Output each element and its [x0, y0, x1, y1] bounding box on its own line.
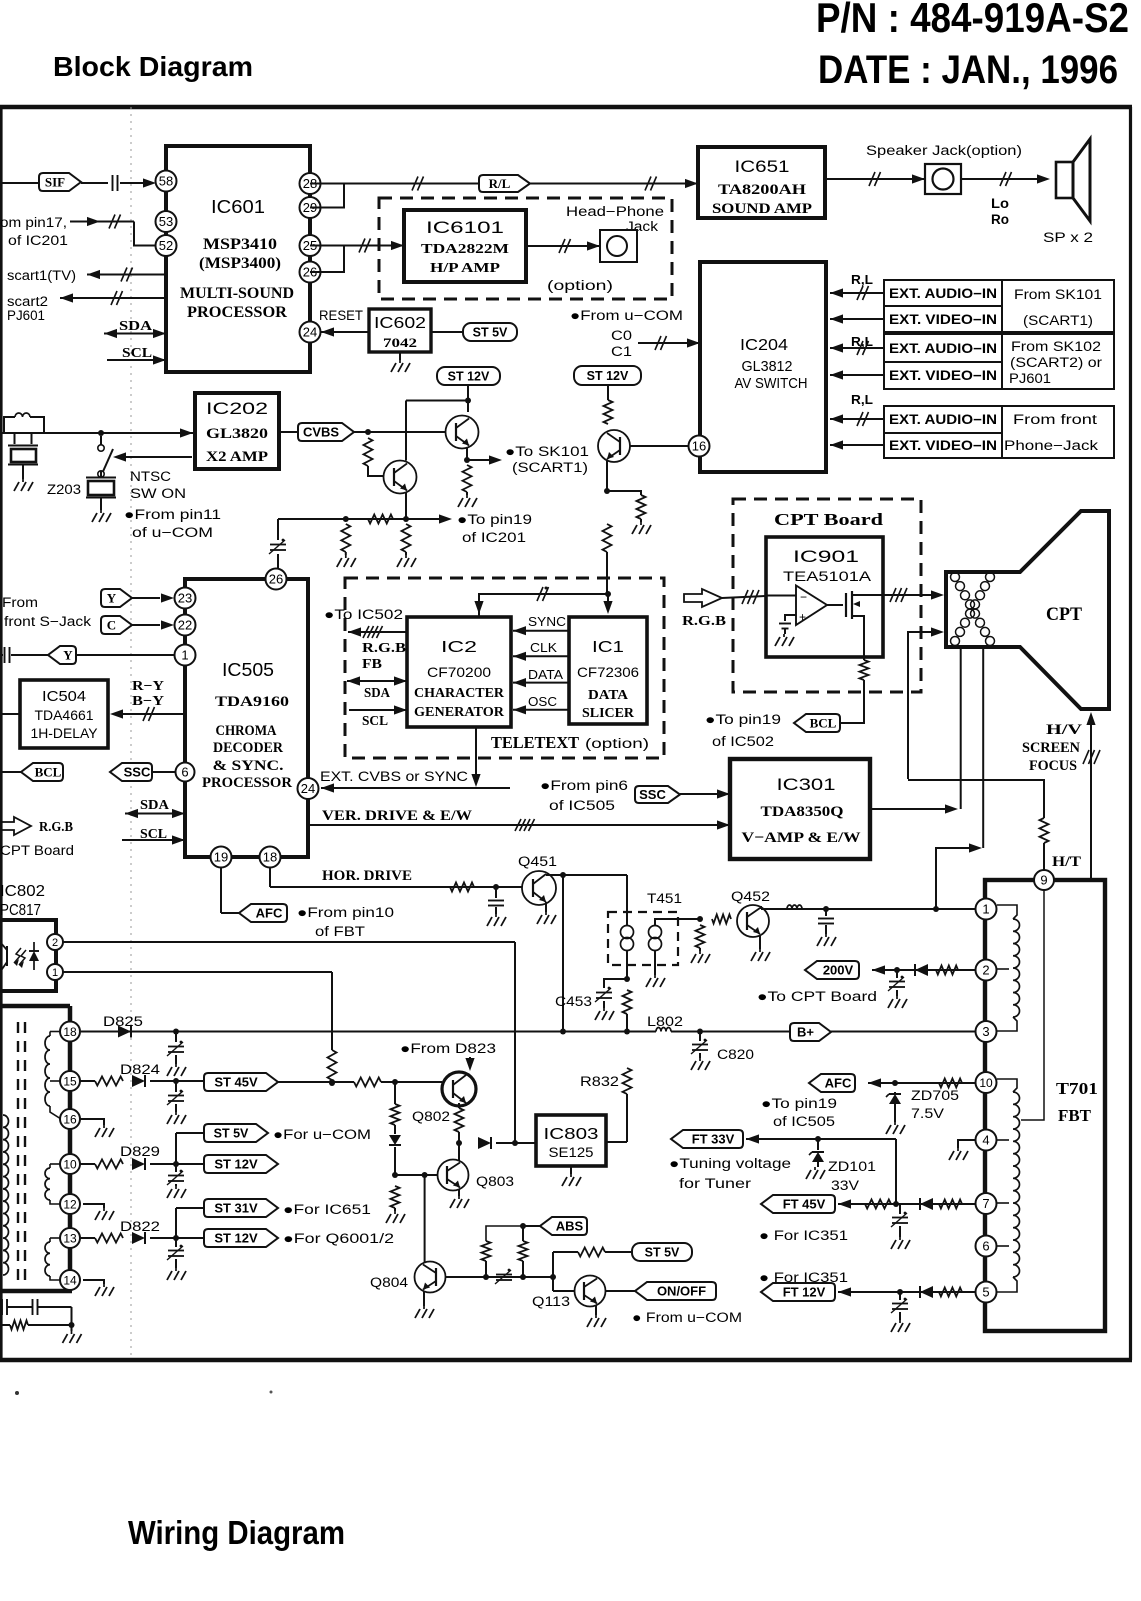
transistor below ST12V	[598, 430, 630, 462]
pin 29	[300, 197, 321, 218]
svg-text:ST 45V: ST 45V	[214, 1075, 258, 1090]
svg-text:CF70200: CF70200	[427, 664, 491, 680]
dashed option box IC6101	[379, 198, 672, 299]
wire jack to speaker	[961, 178, 1039, 180]
svg-text:TDA2822M: TDA2822M	[421, 242, 509, 257]
svg-text:of IC201: of IC201	[462, 530, 526, 545]
opto pin1 wire	[63, 971, 332, 973]
svg-text:BCL: BCL	[35, 765, 62, 780]
pin 6	[176, 763, 195, 782]
svg-text:ST 12V: ST 12V	[448, 370, 490, 384]
svg-text:EXT. CVBS or SYNC: EXT. CVBS or SYNC	[320, 768, 468, 784]
frame border	[0, 105, 1132, 110]
svg-text:●From pin10: ●From pin10	[297, 905, 394, 920]
base resistor/gnd for Q452	[696, 925, 705, 948]
T451 secondary coil	[649, 926, 662, 939]
svg-text:ST 31V: ST 31V	[214, 1201, 258, 1216]
T801 primary winding (cut at frame)	[3, 1115, 9, 1275]
svg-text:IC504: IC504	[42, 688, 86, 705]
resistor below zener to ground	[391, 1186, 400, 1208]
ABS resistors	[482, 1241, 491, 1261]
transistor Q802 (bold)	[442, 1072, 476, 1106]
tag SIF	[39, 173, 81, 191]
svg-text:V−AMP & E/W: V−AMP & E/W	[742, 830, 861, 846]
tag ST 5V	[463, 323, 517, 341]
svg-text:●From pin6: ●From pin6	[540, 778, 628, 793]
Q113 to ON/OFF	[606, 1290, 635, 1292]
svg-text:16: 16	[692, 439, 706, 454]
svg-text:DECODER: DECODER	[213, 740, 283, 756]
svg-text:(SCART1): (SCART1)	[512, 460, 588, 475]
svg-text:Q802: Q802	[412, 1109, 450, 1124]
pin 24	[300, 322, 321, 343]
svg-text:SDA: SDA	[364, 686, 391, 701]
svg-text:GENERATOR: GENERATOR	[414, 704, 504, 719]
svg-text:FOCUS: FOCUS	[1029, 758, 1077, 774]
svg-text:Speaker Jack(option): Speaker Jack(option)	[866, 143, 1022, 158]
ST 5V near Q113	[552, 1252, 554, 1277]
yoke drop V	[960, 647, 962, 809]
svg-text:12: 12	[63, 1197, 77, 1211]
svg-text:TELETEXT: TELETEXT	[491, 733, 579, 752]
pin 2	[976, 960, 997, 981]
svg-text:FT 33V: FT 33V	[692, 1132, 735, 1147]
svg-text:CHROMA: CHROMA	[216, 723, 277, 739]
svg-text:SDA: SDA	[140, 798, 170, 813]
svg-text:IC301: IC301	[777, 775, 836, 794]
Q803 emitter ground	[458, 1189, 460, 1196]
IC504 box	[20, 680, 108, 748]
transistor emitter down / branch	[606, 461, 608, 491]
pin 6	[976, 1236, 997, 1257]
svg-text:ZD101: ZD101	[828, 1159, 876, 1174]
svg-text:H/P AMP: H/P AMP	[430, 261, 501, 276]
wire R/L to IC651	[530, 183, 698, 185]
Q113 emitter ground	[595, 1305, 597, 1315]
svg-text:ST 5V: ST 5V	[645, 1246, 680, 1260]
svg-text:24: 24	[303, 325, 317, 340]
svg-text:H/T: H/T	[1052, 854, 1081, 870]
svg-text:SP x 2: SP x 2	[1043, 229, 1093, 245]
svg-text:front S−Jack: front S−Jack	[4, 614, 91, 629]
H yoke feed from collector line	[936, 848, 971, 909]
svg-text:IC802: IC802	[0, 883, 45, 900]
svg-text:●For u−COM: ●For u−COM	[273, 1127, 371, 1142]
pin16 ground	[80, 1119, 104, 1125]
svg-text:Y: Y	[63, 648, 73, 663]
svg-text:SIF: SIF	[45, 175, 65, 190]
capacitor on SIF line	[81, 182, 108, 184]
svg-text:6: 6	[982, 1239, 989, 1254]
svg-text:D822: D822	[120, 1219, 160, 1234]
pin 10	[976, 1072, 997, 1093]
H/T feed arrow into yoke	[908, 632, 933, 779]
svg-text:NTSC: NTSC	[130, 469, 171, 484]
IC901 box	[766, 537, 883, 657]
svg-text:T451: T451	[647, 891, 682, 906]
pin12 ground	[83, 1204, 104, 1208]
Q804 emitter ground	[423, 1291, 425, 1306]
svg-text:FB: FB	[362, 657, 382, 672]
wire pin29 joins pin28 line	[310, 184, 344, 208]
T801 core dashes	[17, 1022, 19, 1286]
svg-text:5: 5	[982, 1285, 989, 1300]
T801 chassis thick lines	[0, 1004, 70, 1009]
svg-text:Z203: Z203	[47, 482, 81, 497]
svg-text:Jack: Jack	[626, 219, 658, 234]
Q803 base wire	[395, 1174, 438, 1176]
IC901 output to CPT	[883, 594, 933, 596]
svg-text:DATA: DATA	[588, 687, 628, 702]
tag SSC to pin6	[110, 763, 152, 781]
svg-text:L802: L802	[647, 1014, 683, 1029]
svg-text:58: 58	[159, 174, 173, 189]
svg-text:CPT Board: CPT Board	[0, 843, 74, 858]
svg-text:26: 26	[269, 572, 283, 587]
pin 13	[60, 1228, 80, 1248]
wire IC6101 to headphone jack	[526, 245, 600, 247]
Q804 collector feed	[424, 1175, 426, 1263]
svg-text:(SCART1): (SCART1)	[1023, 313, 1093, 328]
svg-text:1: 1	[982, 902, 989, 917]
svg-text:EXT. VIDEO−IN: EXT. VIDEO−IN	[889, 438, 997, 453]
optocoupler innards	[29, 951, 39, 961]
svg-text:22: 22	[178, 618, 192, 633]
AFC tag under pin 19	[220, 868, 222, 913]
svg-text:C453: C453	[555, 994, 592, 1009]
IC803 ground	[570, 1166, 572, 1174]
svg-text:DATA: DATA	[528, 667, 563, 682]
pin 19 bottom	[211, 847, 232, 868]
svg-text:From: From	[2, 595, 38, 610]
svg-text:(option): (option)	[547, 278, 613, 293]
svg-text:R/L: R/L	[489, 176, 511, 191]
svg-text:R,L: R,L	[851, 272, 873, 287]
svg-text:SSC: SSC	[124, 765, 151, 780]
R.G.B FB arrow out of IC2	[348, 631, 407, 633]
Q451 collector to B+ rail	[547, 874, 627, 875]
tag SSC into IC301	[635, 786, 680, 803]
dashed TELETEXT box	[345, 578, 664, 758]
tag R/L	[479, 175, 530, 192]
svg-text:●To CPT Board: ●To CPT Board	[757, 989, 877, 1004]
top feed wire into IC2 and IC1	[479, 594, 608, 617]
svg-text:R,L: R,L	[851, 392, 873, 407]
svg-text:scart2: scart2	[7, 294, 48, 309]
svg-text:SE125: SE125	[549, 1145, 594, 1160]
svg-text:H/V: H/V	[1046, 722, 1083, 738]
svg-text:om pin17,: om pin17,	[0, 215, 67, 230]
svg-text:●Tuning voltage: ●Tuning voltage	[669, 1156, 791, 1171]
svg-text:ZD705: ZD705	[911, 1088, 959, 1103]
svg-text:1: 1	[52, 967, 58, 979]
svg-text:SYNC: SYNC	[528, 614, 566, 629]
tag BCL left	[0, 771, 21, 773]
CVBS line to transistors	[354, 431, 446, 433]
svg-text:Wiring Diagram: Wiring Diagram	[128, 1514, 345, 1551]
IC2 box	[407, 617, 511, 727]
opto pin2 wire	[63, 941, 515, 943]
supply wire to collectors	[467, 385, 469, 412]
svg-text:R.G.B: R.G.B	[362, 641, 406, 656]
pin 10	[60, 1154, 80, 1174]
wire from pin17 to pins 53/52	[70, 221, 134, 223]
pin 23	[175, 588, 196, 609]
Q452 emitter ground	[759, 935, 761, 949]
svg-text:PC817: PC817	[0, 902, 41, 919]
svg-text:● For IC351: ● For IC351	[759, 1228, 848, 1243]
svg-text:of IC502: of IC502	[712, 734, 774, 749]
wire IC202 to CVBS	[279, 431, 298, 433]
diode to IC803	[478, 1137, 491, 1149]
svg-text:●For Q6001/2: ●For Q6001/2	[283, 1231, 394, 1246]
svg-text:VER. DRIVE & E/W: VER. DRIVE & E/W	[322, 808, 473, 824]
svg-text:EXT. AUDIO−IN: EXT. AUDIO−IN	[889, 412, 997, 427]
IC1 box	[569, 617, 647, 724]
wire SIF input	[0, 182, 39, 184]
svg-text:10: 10	[979, 1076, 993, 1090]
svg-text:HOR. DRIVE: HOR. DRIVE	[322, 868, 412, 884]
svg-text:for Tuner: for Tuner	[679, 1176, 752, 1191]
svg-text:7042: 7042	[383, 335, 417, 350]
pin 18 bottom	[260, 847, 281, 868]
svg-text:MULTI-SOUND: MULTI-SOUND	[180, 285, 294, 302]
svg-text:Q804: Q804	[370, 1275, 409, 1290]
svg-text:IC202: IC202	[206, 400, 268, 418]
C453 branch	[604, 979, 627, 988]
svg-text:Block Diagram: Block Diagram	[53, 51, 253, 82]
T801 secondary winding lower	[50, 1163, 62, 1165]
NTSC switch	[98, 430, 104, 436]
wire base to pin 16	[630, 445, 688, 447]
svg-text:ST 5V: ST 5V	[473, 326, 508, 340]
svg-text:Q451: Q451	[518, 854, 557, 869]
svg-text:R−Y: R−Y	[132, 679, 164, 694]
svg-text:●To pin19: ●To pin19	[457, 512, 532, 527]
tag Y (S-jack)	[101, 589, 132, 607]
IC301 output to yoke	[870, 808, 947, 810]
IC602 box	[369, 309, 431, 352]
svg-text:R.G.B: R.G.B	[682, 614, 726, 629]
svg-text:7.5V: 7.5V	[911, 1106, 944, 1121]
speaker jack box	[925, 164, 961, 194]
AFC row from pin 10	[809, 1074, 855, 1092]
pin 4	[976, 1130, 997, 1151]
dashed CPT Board box	[733, 499, 921, 692]
svg-text:18: 18	[263, 850, 277, 865]
svg-text:14: 14	[63, 1273, 77, 1287]
svg-text:D824: D824	[120, 1062, 161, 1077]
svg-text:EXT. VIDEO−IN: EXT. VIDEO−IN	[889, 368, 997, 383]
ST45V drop: zener to ground	[394, 1082, 396, 1104]
tag ST 12V (second)	[574, 366, 641, 385]
pin 14	[60, 1270, 80, 1290]
scan specks	[15, 1391, 19, 1395]
IF trap component at left	[0, 432, 193, 434]
svg-text:From SK102: From SK102	[1011, 339, 1101, 354]
svg-text:SOUND AMP: SOUND AMP	[712, 201, 812, 217]
svg-text:AFC: AFC	[825, 1076, 852, 1091]
EXT boxes group 1	[884, 280, 1002, 306]
tag Y (composite)	[0, 654, 3, 656]
resistor/gnd drops on pin19 line	[341, 524, 350, 552]
R.G.B big arrow to CPT Board	[0, 817, 31, 835]
upper emitter resistor to ground	[463, 465, 472, 492]
svg-text:PJ601: PJ601	[7, 308, 45, 323]
transistor Q804	[415, 1262, 446, 1293]
ST 12V tag (first)	[437, 367, 500, 385]
switch annotation arrow	[113, 452, 126, 461]
R451 under T451	[623, 990, 632, 1014]
H/V focus line to CPT	[1090, 722, 1092, 880]
transistor lower (buffer)	[384, 461, 417, 494]
T701 FBT box	[985, 880, 1105, 1331]
svg-text:Lo: Lo	[991, 196, 1009, 211]
pin 5	[976, 1282, 997, 1303]
svg-text:of IC505: of IC505	[549, 798, 615, 813]
deflection yoke coils	[951, 573, 960, 582]
svg-text:Phone−Jack: Phone−Jack	[1004, 438, 1098, 453]
drop to IC505 pin 26	[277, 519, 279, 540]
svg-text:X2 AMP: X2 AMP	[206, 449, 268, 465]
svg-text:C820: C820	[717, 1047, 754, 1062]
svg-text:SW ON: SW ON	[130, 486, 186, 501]
pin 15	[60, 1071, 80, 1091]
svg-text:GL3812: GL3812	[742, 359, 793, 375]
svg-text:Head−Phone: Head−Phone	[566, 204, 664, 219]
svg-text:of u−COM: of u−COM	[132, 525, 213, 540]
FT 45V row	[761, 1195, 835, 1213]
svg-text:EXT. AUDIO−IN: EXT. AUDIO−IN	[889, 286, 997, 301]
svg-text:& SYNC.: & SYNC.	[213, 758, 284, 774]
svg-text:3: 3	[982, 1024, 989, 1039]
upper emitter to SK101 arrow	[466, 447, 468, 460]
svg-text:IC651: IC651	[735, 157, 790, 176]
svg-text:Ro: Ro	[991, 212, 1009, 227]
Q802 emitter resistor	[458, 1103, 460, 1108]
svg-text:ST 12V: ST 12V	[214, 1157, 258, 1172]
svg-text:DATE : JAN., 1996: DATE : JAN., 1996	[818, 48, 1118, 92]
pin 25	[300, 235, 321, 256]
to pin19 of IC201 wire	[278, 518, 441, 520]
pin 9 top	[1034, 870, 1054, 890]
pin 18	[60, 1022, 80, 1042]
svg-text:of IC201: of IC201	[8, 233, 68, 248]
svg-text:●From pin11: ●From pin11	[124, 507, 221, 522]
svg-text:TDA8350Q: TDA8350Q	[761, 804, 844, 820]
svg-text:52: 52	[159, 238, 173, 253]
FBT secondary winding	[997, 1079, 1017, 1092]
arrow into pin 58	[143, 178, 156, 187]
svg-text:2: 2	[52, 937, 58, 949]
wire SCL	[107, 359, 166, 361]
transistor Q451	[522, 871, 556, 905]
svg-text:4: 4	[982, 1133, 989, 1148]
svg-text:●From u−COM: ●From u−COM	[570, 308, 683, 323]
tag ABS	[523, 1225, 540, 1227]
svg-text:CF72306: CF72306	[577, 664, 639, 680]
yoke drop H	[982, 647, 984, 848]
svg-text:IC505: IC505	[222, 660, 274, 680]
T801 secondary winding upper	[50, 1031, 61, 1033]
ST45V line to Q802	[278, 1081, 354, 1083]
svg-text:●From D823: ●From D823	[400, 1041, 496, 1056]
svg-text:●To SK101: ●To SK101	[505, 444, 589, 459]
IC651 box	[698, 147, 825, 218]
transistor upper (buffer)	[446, 416, 479, 449]
svg-text:15: 15	[63, 1074, 77, 1088]
headphone jack	[600, 230, 637, 262]
BCL tag near IC901	[860, 660, 869, 680]
pin 28	[300, 173, 321, 194]
fold crease line	[130, 107, 132, 1358]
svg-text:ABS: ABS	[556, 1219, 584, 1234]
pin 12	[60, 1194, 80, 1214]
lower emitter to pin19 line	[405, 493, 407, 519]
wire pin28 to R/L tag	[310, 183, 479, 185]
svg-text:SCREEN: SCREEN	[1022, 740, 1081, 756]
resistor to lower transistor base	[364, 438, 373, 466]
svg-text:53: 53	[159, 214, 173, 229]
svg-text:●To pin19: ●To pin19	[761, 1096, 837, 1111]
wire RGB to IC901	[722, 596, 766, 598]
pin 22	[175, 615, 196, 636]
pin 26	[300, 262, 321, 283]
IC6101 box	[404, 210, 526, 282]
driver FET inside IC901	[827, 604, 843, 606]
wire IC602 to ST 5V	[431, 331, 463, 333]
pin 16 of IC204	[689, 436, 710, 457]
svg-text:TEA5101A: TEA5101A	[783, 568, 872, 584]
svg-text:IC2: IC2	[441, 639, 477, 656]
svg-text:C1: C1	[611, 344, 632, 359]
svg-text:EXT. VIDEO−IN: EXT. VIDEO−IN	[889, 312, 997, 327]
svg-text:1: 1	[181, 648, 188, 663]
svg-text:FBT: FBT	[1058, 1106, 1091, 1125]
svg-text:(SCART2) or: (SCART2) or	[1010, 355, 1103, 370]
pin 16	[60, 1109, 80, 1129]
svg-text:MSP3410: MSP3410	[203, 236, 277, 253]
svg-text:B−Y: B−Y	[132, 694, 164, 709]
snubber RC below T801	[1, 1299, 3, 1315]
svg-text:R832: R832	[580, 1074, 619, 1089]
transistor Q452	[737, 905, 769, 937]
svg-text:ST 12V: ST 12V	[587, 369, 629, 383]
wire IC651 to speaker jack	[825, 178, 925, 180]
svg-text:SCL: SCL	[122, 346, 152, 361]
svg-text:From front: From front	[1013, 412, 1097, 427]
ceramic filter Z201	[14, 433, 16, 444]
R.G.B input big arrow	[684, 589, 722, 607]
200V row	[805, 961, 859, 979]
svg-text:FT 12V: FT 12V	[783, 1285, 826, 1300]
svg-text:BCL: BCL	[810, 716, 837, 731]
op-amp triangle inside IC901	[796, 586, 827, 626]
IC204 box	[700, 262, 826, 472]
svg-text:D829: D829	[120, 1144, 160, 1159]
svg-text:B+: B+	[797, 1025, 814, 1040]
svg-text:9: 9	[1040, 873, 1047, 888]
tag CVBS	[298, 423, 354, 441]
svg-text:1H-DELAY: 1H-DELAY	[31, 725, 99, 741]
svg-text:CPT Board: CPT Board	[774, 510, 883, 529]
svg-text:●To IC502: ●To IC502	[324, 607, 403, 622]
svg-text:Q113: Q113	[532, 1294, 570, 1309]
pin 9 internal wire	[1021, 890, 1044, 1120]
svg-text:2: 2	[982, 963, 989, 978]
pin 7	[976, 1193, 997, 1214]
wire pin25 to IC6101	[310, 245, 404, 247]
